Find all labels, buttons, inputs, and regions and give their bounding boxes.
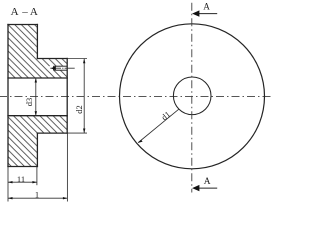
svg-text:A: A (11, 6, 19, 18)
svg-text:A: A (204, 177, 211, 187)
svg-text:A: A (30, 6, 38, 18)
svg-text:d2: d2 (74, 105, 84, 114)
svg-text:–: – (21, 6, 28, 18)
svg-text:A: A (203, 2, 210, 12)
svg-text:11: 11 (17, 174, 25, 184)
svg-text:1: 1 (35, 190, 39, 200)
svg-text:d3: d3 (24, 98, 34, 107)
svg-text:d1: d1 (159, 109, 172, 122)
